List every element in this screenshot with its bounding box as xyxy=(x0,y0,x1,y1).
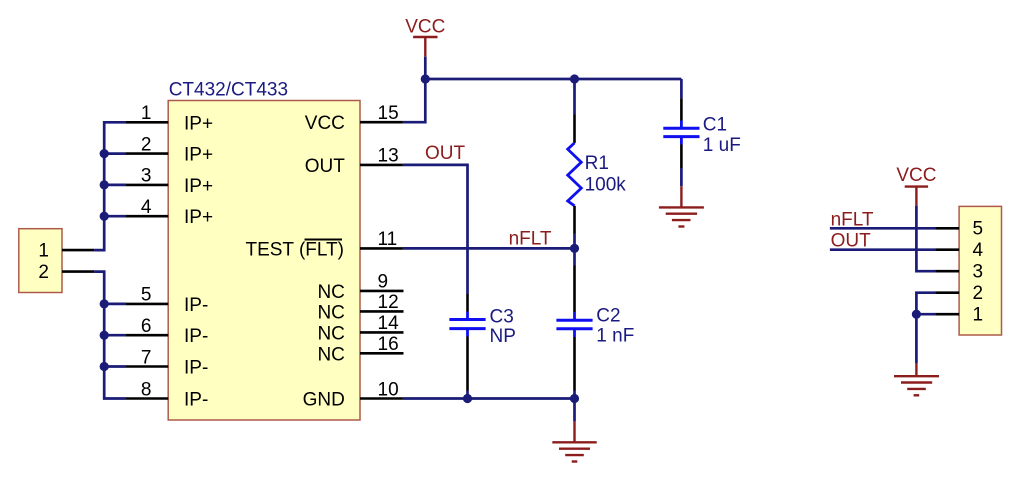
wire GND rail from pin 10 xyxy=(403,397,575,400)
junction R1 top node xyxy=(570,74,579,83)
capacitor C3 top plate xyxy=(449,318,485,321)
wire IP+ branch pin 2 xyxy=(104,152,126,155)
resistor R1 zigzag xyxy=(568,143,582,206)
svg-text:5: 5 xyxy=(973,219,984,240)
wire C1 top from rail xyxy=(680,79,683,98)
CON1 pin 2 stub xyxy=(62,270,94,273)
junction IP- pin 7 xyxy=(100,362,109,371)
svg-text:16: 16 xyxy=(378,334,399,355)
capacitor C1 top plate xyxy=(663,127,699,130)
CON2 pin 1 stub xyxy=(935,313,959,316)
wire IP+ branch pin 4 xyxy=(104,215,126,218)
capacitor C1 bottom pin xyxy=(680,145,683,169)
svg-text:NC: NC xyxy=(317,302,344,323)
svg-text:NC: NC xyxy=(317,282,344,303)
wire IP+ bus vertical xyxy=(94,122,126,250)
capacitor C2 bottom plate xyxy=(556,327,592,330)
junction GND C3 xyxy=(463,394,472,403)
wire C3 to GND rail xyxy=(466,391,469,399)
svg-text:14: 14 xyxy=(378,313,400,334)
pin 3 stub (IP+) xyxy=(126,184,168,187)
svg-text:1: 1 xyxy=(141,103,152,124)
svg-text:6: 6 xyxy=(141,316,152,337)
capacitor C3 top pin xyxy=(466,294,469,312)
capacitor C2 bottom lead xyxy=(573,329,576,337)
capacitor C1 top lead xyxy=(680,121,683,129)
svg-text:2: 2 xyxy=(973,283,984,304)
pin 14 stub (NC) xyxy=(360,331,404,334)
svg-text:1: 1 xyxy=(38,241,49,262)
svg-text:13: 13 xyxy=(378,146,399,167)
wire GND drop xyxy=(573,399,576,422)
pin 13 stub (OUT) xyxy=(360,164,403,167)
wire CON2 pin 1 to ground node xyxy=(916,313,935,316)
wire IP+ branch pin 3 xyxy=(104,184,126,187)
capacitor C1 bottom plate xyxy=(663,135,699,138)
wire IP- branch pin 6 xyxy=(104,334,126,337)
wire nFLT (right) xyxy=(830,227,936,230)
CON2 pin 2 stub xyxy=(935,291,959,294)
svg-text:10: 10 xyxy=(378,379,399,400)
wire OUT (right) xyxy=(830,248,936,251)
svg-text:8: 8 xyxy=(141,379,152,400)
svg-text:4: 4 xyxy=(141,197,152,218)
pin 1 stub (IP+) xyxy=(126,121,168,124)
svg-text:IP+: IP+ xyxy=(184,176,213,197)
svg-text:IP+: IP+ xyxy=(184,207,213,228)
wire C1 to ground xyxy=(680,168,683,186)
pin 7 stub (IP-) xyxy=(126,365,168,368)
svg-text:NP: NP xyxy=(490,326,516,347)
capacitor C2 top plate xyxy=(556,319,592,322)
svg-text:nFLT: nFLT xyxy=(509,228,552,249)
resistor R1 bottom pin xyxy=(573,206,576,234)
CON2 pin 5 stub xyxy=(935,227,959,230)
ground symbol (main) xyxy=(552,421,596,461)
junction VCC node xyxy=(421,74,430,83)
pin 2 stub (IP+) xyxy=(126,152,168,155)
pin 12 stub (NC) xyxy=(360,310,404,313)
VCC red stub xyxy=(424,37,426,57)
junction IP- pin 5 xyxy=(100,299,109,308)
wire R1 bottom xyxy=(573,234,576,249)
svg-text:TEST (FLT): TEST (FLT) xyxy=(245,239,344,260)
wire C2 to GND rail xyxy=(573,391,576,399)
ground symbol (C1) xyxy=(659,186,704,226)
pin 10 stub (GND) xyxy=(360,397,403,400)
svg-text:VCC: VCC xyxy=(305,113,345,134)
pin 6 stub (IP-) xyxy=(126,334,168,337)
junction IP- pin 6 xyxy=(100,331,109,340)
junction CON2 ground node xyxy=(912,310,921,319)
capacitor C3 bottom lead xyxy=(466,329,469,337)
wire VCC top rail xyxy=(425,78,681,81)
pin 9 stub (NC) xyxy=(360,290,404,293)
svg-text:NC: NC xyxy=(317,323,344,344)
pin 8 stub (IP-) xyxy=(126,397,168,400)
svg-text:IP-: IP- xyxy=(184,358,208,379)
IC U1 body CT432/CT433 xyxy=(168,101,360,421)
wire VCC right vertical xyxy=(916,206,935,272)
wire IP- bus vertical xyxy=(94,272,126,399)
wire OUT from pin 13 xyxy=(403,165,468,294)
junction GND C2 xyxy=(570,394,579,403)
wire C2 top xyxy=(573,248,576,265)
svg-text:IP+: IP+ xyxy=(184,113,213,134)
svg-text:OUT: OUT xyxy=(831,230,872,251)
wire IP- branch pin 5 xyxy=(104,303,126,306)
capacitor C2 top pin xyxy=(573,266,576,313)
svg-text:VCC: VCC xyxy=(405,17,445,38)
svg-text:100k: 100k xyxy=(585,175,627,196)
svg-text:C2: C2 xyxy=(596,305,620,326)
wire VCC stub blue xyxy=(424,57,427,79)
CON1 pin 1 stub xyxy=(62,249,94,252)
wire VCC down to pin 15 xyxy=(403,79,425,122)
wire nFLT from pin 11 xyxy=(403,247,575,250)
svg-text:9: 9 xyxy=(378,272,389,293)
svg-text:4: 4 xyxy=(973,240,984,261)
overline over FLT xyxy=(305,239,343,241)
svg-text:2: 2 xyxy=(38,262,49,283)
svg-text:1 nF: 1 nF xyxy=(596,325,634,346)
svg-text:1: 1 xyxy=(973,305,984,326)
svg-text:GND: GND xyxy=(303,390,345,411)
svg-text:2: 2 xyxy=(141,134,152,155)
connector CON2 body (right) xyxy=(959,206,1001,335)
resistor R1 top pin xyxy=(573,115,576,143)
CON2 pin 4 stub xyxy=(935,248,959,251)
pin 4 stub (IP+) xyxy=(126,215,168,218)
junction IP+ pin 4 xyxy=(100,212,109,221)
pin 15 stub (VCC) xyxy=(360,121,403,124)
svg-text:7: 7 xyxy=(141,347,152,368)
capacitor C1 top pin xyxy=(680,98,683,120)
junction IP+ pin 2 xyxy=(100,149,109,158)
capacitor C3 top lead xyxy=(466,312,469,320)
svg-text:IP-: IP- xyxy=(184,326,208,347)
svg-text:12: 12 xyxy=(378,292,399,313)
svg-text:C1: C1 xyxy=(703,114,727,135)
capacitor C2 bottom pin xyxy=(573,337,576,391)
wire ground drop (right) xyxy=(915,314,918,363)
svg-text:3: 3 xyxy=(141,166,152,187)
capacitor C3 bottom pin xyxy=(466,337,469,391)
capacitor C3 bottom plate xyxy=(449,327,485,330)
svg-text:OUT: OUT xyxy=(305,156,346,177)
svg-text:IP-: IP- xyxy=(184,295,208,316)
svg-text:15: 15 xyxy=(378,103,399,124)
svg-text:5: 5 xyxy=(141,285,152,306)
svg-text:11: 11 xyxy=(378,229,398,250)
svg-text:IP-: IP- xyxy=(184,390,208,411)
VCC right bar xyxy=(905,185,928,187)
VCC bar xyxy=(413,36,437,38)
svg-text:CT432/CT433: CT432/CT433 xyxy=(169,79,288,100)
pin 5 stub (IP-) xyxy=(126,303,168,306)
svg-text:NC: NC xyxy=(317,344,344,365)
wire R1 top xyxy=(573,79,576,115)
svg-text:C3: C3 xyxy=(490,307,514,328)
pin 16 stub (NC) xyxy=(360,352,404,355)
svg-text:IP+: IP+ xyxy=(184,145,213,166)
pin 11 stub (TEST) xyxy=(360,247,403,250)
junction IP+ pin 3 xyxy=(100,180,109,189)
junction nFLT node xyxy=(570,244,579,253)
svg-text:R1: R1 xyxy=(585,153,609,174)
svg-text:1 uF: 1 uF xyxy=(703,135,741,156)
connector CON1 body (left) xyxy=(19,229,62,293)
capacitor C1 bottom lead xyxy=(680,137,683,145)
capacitor C2 top lead xyxy=(573,312,576,320)
svg-text:3: 3 xyxy=(973,262,984,283)
wire CON2 pin 2 to ground node xyxy=(916,293,935,315)
svg-text:VCC: VCC xyxy=(896,165,936,186)
ground symbol (right) xyxy=(894,363,939,395)
VCC right red stub xyxy=(915,187,917,206)
svg-text:OUT: OUT xyxy=(425,143,466,164)
wire IP- branch pin 7 xyxy=(104,365,126,368)
CON2 pin 3 stub xyxy=(935,270,959,273)
